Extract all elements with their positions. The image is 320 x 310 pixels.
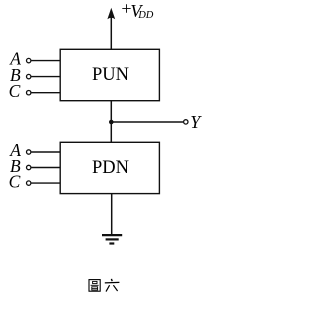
node B (upper input): [10, 65, 60, 85]
svg-text:PDN: PDN: [92, 158, 129, 178]
box PUN: [60, 49, 159, 100]
svg-text:C: C: [9, 81, 21, 101]
svg-text:PUN: PUN: [92, 65, 129, 85]
node A (lower input): [9, 140, 60, 160]
caption 圖六 (figure six): [89, 279, 119, 292]
svg-text:C: C: [9, 171, 21, 191]
node B (lower input): [10, 156, 60, 176]
label +VDD: [120, 0, 154, 21]
power VDD arrow: [107, 8, 115, 50]
node Y terminal: [184, 120, 188, 124]
node A (upper input): [9, 49, 60, 69]
junction node: [109, 120, 114, 125]
wire PDN to ground: [111, 194, 113, 235]
wire to output Y: [111, 121, 183, 123]
ground: [102, 235, 122, 243]
wire PUN to PDN: [110, 101, 112, 143]
node C (lower input): [9, 171, 61, 191]
box PDN: [60, 142, 159, 193]
node C (upper input): [9, 81, 61, 101]
svg-text:Y: Y: [190, 112, 202, 132]
glyph 圖: [89, 280, 100, 292]
svg-text:DD: DD: [137, 10, 154, 21]
glyph 六: [105, 279, 120, 292]
